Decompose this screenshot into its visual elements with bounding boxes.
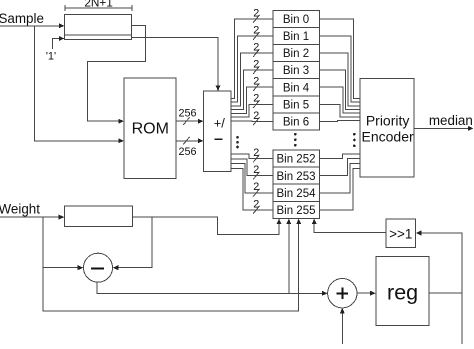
svg-text:Encoder: Encoder [362, 129, 414, 145]
wire adder bottom input [341, 313, 343, 345]
wire Bin 1 to priority encoder [319, 36, 360, 102]
wire register top output to ROM upper input [88, 25, 146, 121]
wire +/- to Bin 2 (bus 2) [231, 53, 273, 106]
ROM block [124, 78, 176, 178]
histogram Bin 252 [273, 150, 319, 167]
svg-text:Bin 2: Bin 2 [283, 48, 309, 60]
svg-text:+/: +/ [214, 115, 226, 130]
svg-text:reg: reg [387, 280, 418, 304]
wire Weight input [0, 216, 59, 218]
wire Bin 2 to priority encoder [319, 53, 360, 106]
svg-text:256: 256 [178, 146, 196, 158]
histogram Bin 1 [273, 28, 319, 45]
wire +/- to Bin 3 (bus 2) [231, 70, 273, 110]
wire Bin 255 to priority encoder [319, 168, 360, 210]
svg-text:2: 2 [253, 76, 259, 88]
svg-text:2: 2 [253, 59, 259, 71]
wire Bin 253 to priority encoder [319, 159, 360, 176]
wire reg output feedback [429, 292, 462, 294]
adder-subtractor unit +/- [204, 91, 231, 171]
wire Bin 252 to priority encoder [319, 154, 360, 159]
wire ROM output bus upper (256) [176, 120, 199, 122]
svg-text:Bin 4: Bin 4 [283, 82, 310, 94]
svg-text:2N+1: 2N+1 [84, 0, 113, 10]
wire Sample input [0, 25, 60, 27]
wire weight register output to Bin 255 write port [132, 217, 279, 234]
weight register box [65, 206, 133, 226]
histogram Bin 6 [273, 113, 319, 130]
wire Bin 254 to priority encoder [319, 163, 360, 192]
wire Bin 0 to priority encoder [319, 19, 360, 99]
svg-text:2: 2 [253, 181, 259, 193]
wire Bin 3 to priority encoder [319, 70, 360, 109]
wire Bin 4 to priority encoder [319, 87, 360, 113]
dimension line 2N+1 [65, 7, 132, 9]
adder node (plus) [328, 279, 357, 308]
shift register output slab [65, 35, 132, 40]
svg-text:2: 2 [253, 24, 259, 36]
histogram Bin 3 [273, 62, 319, 79]
wire adder output to reg [357, 292, 371, 294]
svg-text:Bin 0: Bin 0 [283, 14, 309, 26]
svg-text:median: median [429, 113, 473, 128]
wire +/- to Bin 252 (bus 2) [231, 154, 273, 159]
svg-text:2: 2 [253, 93, 259, 105]
svg-text:Bin 254: Bin 254 [276, 188, 316, 200]
wire from '1' to register [52, 39, 59, 50]
wire >>1 output to Bin 255 write port [314, 223, 386, 232]
wire weight register branch to subtractor right input [118, 217, 152, 268]
svg-text:Sample: Sample [0, 11, 44, 26]
wire Weight feedback bottom to Bin 255 write port [43, 223, 299, 310]
register block reg [376, 256, 429, 325]
subtractor node (minus) [84, 253, 113, 282]
svg-text:2: 2 [253, 7, 259, 19]
wire Bin 6 to priority encoder [319, 120, 360, 123]
wire +/- to Bin 255 (bus 2) [231, 168, 273, 210]
wire register slab output to adder-subtractor top [132, 37, 218, 86]
shifter block >>1 [386, 219, 416, 248]
wire +/- to Bin 5 (bus 2) [231, 104, 273, 117]
svg-text:2: 2 [253, 110, 259, 122]
svg-text:Bin 252: Bin 252 [276, 154, 315, 166]
wire Sample branch to ROM lower input [35, 26, 119, 141]
wire +/- to Bin 6 (bus 2) [231, 120, 273, 123]
wire +/- to Bin 253 (bus 2) [231, 159, 273, 176]
histogram Bin 255 [273, 201, 319, 218]
svg-text:ROM: ROM [132, 120, 169, 137]
wire branch up to Bin 255 write port [288, 223, 290, 293]
wire +/- to Bin 1 (bus 2) [231, 36, 273, 102]
svg-text:Weight: Weight [0, 201, 40, 216]
wire Bin 5 to priority encoder [319, 104, 360, 117]
svg-text:2: 2 [253, 164, 259, 176]
ellipsis dots left of priority encoder [353, 133, 356, 136]
ellipsis dots right of +/- [236, 136, 239, 139]
ellipsis dots between bin groups [294, 133, 297, 136]
wire ROM output bus lower (256) [176, 140, 199, 142]
wire subtractor output to adder [97, 282, 323, 293]
svg-text:'1': '1' [46, 51, 56, 63]
wire +/- to Bin 4 (bus 2) [231, 87, 273, 113]
wire +/- to Bin 0 (bus 2) [231, 19, 273, 99]
svg-text:256: 256 [178, 108, 196, 120]
svg-text:2: 2 [253, 42, 259, 54]
histogram Bin 4 [273, 79, 319, 96]
shift register REG1 (2N+1 samples) [65, 15, 132, 35]
svg-text:Bin 3: Bin 3 [283, 65, 309, 77]
svg-text:>>1: >>1 [389, 226, 412, 241]
svg-text:Bin 255: Bin 255 [276, 205, 315, 217]
svg-text:Bin 253: Bin 253 [276, 171, 315, 183]
histogram Bin 254 [273, 184, 319, 201]
svg-text:Bin 5: Bin 5 [283, 99, 309, 111]
svg-text:Priority: Priority [366, 113, 410, 129]
histogram Bin 5 [273, 96, 319, 113]
histogram Bin 2 [273, 45, 319, 62]
svg-text:2: 2 [253, 198, 259, 210]
wire +/- to Bin 254 (bus 2) [231, 163, 273, 192]
svg-text:2: 2 [253, 147, 259, 159]
priority encoder block [360, 79, 414, 178]
wire Weight branch to subtractor left input [42, 217, 44, 268]
svg-text:Bin 6: Bin 6 [283, 117, 309, 129]
svg-text:Bin 1: Bin 1 [283, 31, 309, 43]
wire median output [414, 127, 469, 129]
histogram Bin 253 [273, 167, 319, 184]
histogram Bin 0 [273, 10, 319, 27]
